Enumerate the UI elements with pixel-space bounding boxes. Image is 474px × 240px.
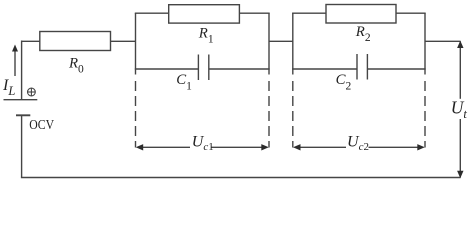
wire [135,12,169,14]
wire [396,12,426,14]
wire [21,115,23,177]
wire [111,40,136,42]
dashed extension line [292,81,294,148]
battery OCV [4,100,38,116]
wire [135,13,137,74]
wire [424,13,426,74]
wire [21,177,461,179]
resistor R2 [326,5,396,24]
capacitor C1 [198,55,208,81]
wire [209,68,270,70]
wire [292,12,326,14]
wire [135,68,199,70]
polarity mark plus [28,88,36,96]
voltage arrow U_c2 [293,144,425,150]
resistor R0 [40,32,111,51]
dashed extension line [268,81,270,148]
wire [268,13,270,74]
wire [269,40,293,42]
capacitor C2 [357,54,367,80]
voltage arrow U_t [457,41,463,179]
dashed extension line [135,81,137,148]
wire [239,12,269,14]
voltage arrow U_c1 [136,144,269,150]
wire [292,68,357,70]
wire [22,40,40,42]
wire [425,40,461,42]
wire [367,68,425,70]
resistor R1 [169,5,240,23]
wire [292,13,294,74]
dashed extension line [424,81,426,148]
svg-text:OCV: OCV [29,118,54,133]
wire [21,41,23,101]
current arrow I_L [12,45,18,77]
